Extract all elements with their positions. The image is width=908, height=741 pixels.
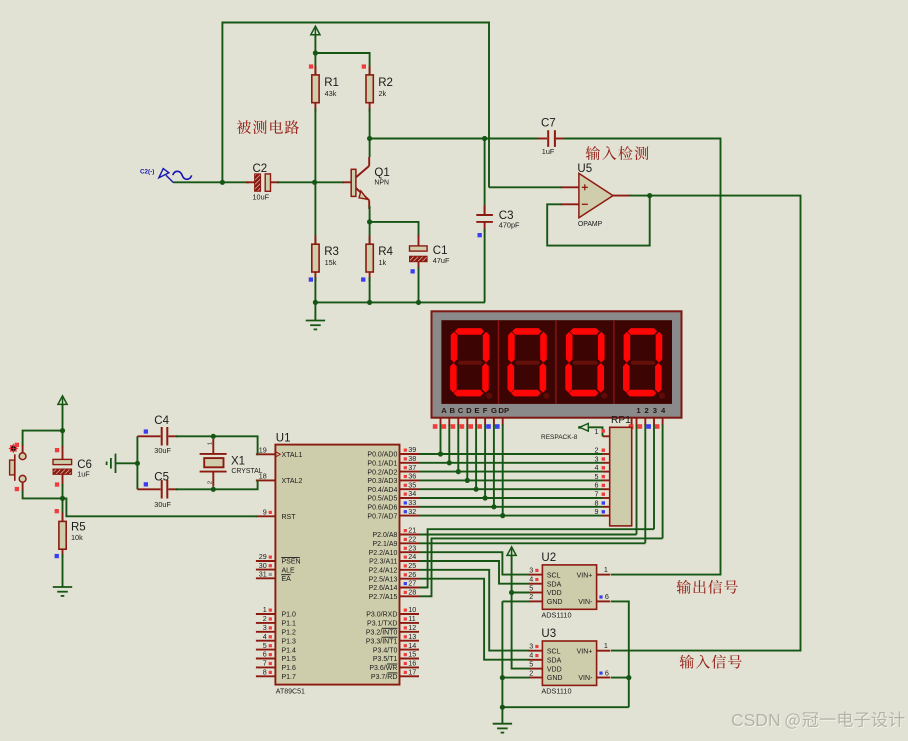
svg-text:P1.7: P1.7 <box>282 674 297 681</box>
wire C4-C5 left vertical <box>136 436 138 489</box>
wire U5 output to U3 VIN+ <box>611 196 801 651</box>
crystal X1 <box>200 439 227 487</box>
svg-text:VIN+: VIN+ <box>577 572 593 579</box>
U1 pin 16 P3.6/WR <box>400 666 420 668</box>
junction seg5/P0 <box>474 487 479 492</box>
svg-text:1: 1 <box>604 641 608 650</box>
wire P2.5 to U3 SDA <box>419 579 530 660</box>
svg-text:P0.2/AD2: P0.2/AD2 <box>367 469 397 476</box>
U1 pin 34 P0.5/AD5 <box>400 497 420 499</box>
pin marker R4 bottom <box>361 277 365 281</box>
svg-text:10uF: 10uF <box>253 192 270 201</box>
svg-text:14: 14 <box>408 641 416 650</box>
svg-text:D: D <box>466 406 472 415</box>
power symbol VCC (ADC) <box>507 547 516 558</box>
pin marker display digit 4 <box>655 424 660 429</box>
wire power to R2 <box>315 53 369 75</box>
wire rail to ground <box>314 302 316 320</box>
display digit labels 1234 <box>636 406 666 415</box>
U1 pin 1 P1.0 <box>256 613 276 615</box>
svg-text:EA: EA <box>282 576 292 583</box>
svg-text:XTAL1: XTAL1 <box>282 452 303 459</box>
wire power to R1 <box>314 35 316 75</box>
capacitor C4 <box>137 427 178 446</box>
pin marker RP1 8 <box>602 501 605 504</box>
wire to button top <box>23 431 63 446</box>
svg-text:B: B <box>450 406 456 415</box>
svg-text:35: 35 <box>408 480 416 489</box>
wire R3 to rail <box>314 277 316 302</box>
svg-text:P2.4/A12: P2.4/A12 <box>369 568 398 575</box>
U1 pin 30 ALE <box>256 569 276 571</box>
resistor R2 <box>366 66 373 112</box>
svg-text:VDD: VDD <box>547 666 562 673</box>
svg-text:30uF: 30uF <box>154 500 171 509</box>
wire GND to U3 <box>502 677 529 679</box>
svg-text:P1.4: P1.4 <box>282 647 297 654</box>
svg-text:P0.7/AD7: P0.7/AD7 <box>367 513 397 520</box>
svg-text:C7: C7 <box>541 117 556 129</box>
wire U3 VIN- stub <box>611 677 629 679</box>
svg-text:30: 30 <box>259 561 267 570</box>
svg-text:R2: R2 <box>378 77 393 89</box>
wire VDD to U2 <box>512 592 530 594</box>
pin marker button bottom <box>15 487 19 491</box>
junction C3 tap <box>482 136 487 141</box>
svg-text:P2.3/A11: P2.3/A11 <box>369 559 397 566</box>
resistor R3 <box>312 236 319 282</box>
resistor pack RP1 RESPACK-8 <box>610 427 632 526</box>
svg-text:4: 4 <box>529 575 533 584</box>
wire emitter node to C1 <box>370 222 419 238</box>
U1 pin 37 P0.2/AD2 <box>400 471 420 473</box>
U1 pin 29 PSEN <box>256 560 276 562</box>
U1 pin 11 P3.1/TXD <box>400 622 420 624</box>
pin marker C6 top <box>55 448 59 452</box>
svg-text:6: 6 <box>605 592 609 601</box>
svg-text:CSDN: CSDN <box>731 710 781 730</box>
junction rail C1 <box>416 300 421 305</box>
RP1 pin 5 stub <box>603 479 610 481</box>
U3 pin 4 SDA <box>529 659 543 661</box>
ground (crystal, rotated) <box>107 454 116 473</box>
svg-text:P1.0: P1.0 <box>282 612 297 619</box>
wire P2.6 to digit3 <box>419 529 654 587</box>
svg-text:2: 2 <box>645 406 649 415</box>
U1 pin 24 P2.3/A11 <box>400 560 420 562</box>
display digit pin 4 wire <box>662 418 664 539</box>
wire emitter down <box>369 206 371 222</box>
U1 pin 5 P1.4 <box>256 649 276 651</box>
svg-text:13: 13 <box>408 632 416 641</box>
svg-text:30uF: 30uF <box>154 446 171 455</box>
svg-text:SDA: SDA <box>547 658 562 665</box>
wire R5 to ground <box>62 554 64 587</box>
capacitor C3 <box>476 139 493 233</box>
junction base node <box>312 180 317 185</box>
svg-text:25: 25 <box>408 561 416 570</box>
svg-text:15: 15 <box>408 650 416 659</box>
wire P0.7 bus row <box>419 515 603 517</box>
svg-text:1: 1 <box>208 442 214 445</box>
U1 pin 32 P0.7/AD7 <box>400 515 420 517</box>
svg-text:P0.0/AD0: P0.0/AD0 <box>367 452 397 459</box>
svg-text:43k: 43k <box>325 89 337 98</box>
svg-text:VIN+: VIN+ <box>577 648 593 655</box>
svg-text:RST: RST <box>282 514 297 521</box>
pin marker display seg 1 <box>433 424 438 429</box>
svg-text:P2.7/A15: P2.7/A15 <box>369 594 398 601</box>
svg-text:P1.1: P1.1 <box>282 621 297 628</box>
U1 pin 21 P2.0/A8 <box>400 534 420 536</box>
display digit pin 2 wire <box>644 418 646 544</box>
RP1 pin 1 wire with terminal arrow <box>578 423 610 436</box>
svg-text:16: 16 <box>408 659 416 668</box>
RP1 pin 2 stub <box>603 453 610 455</box>
pin marker display seg 5 <box>468 424 473 429</box>
svg-text:38: 38 <box>408 454 416 463</box>
display segment pin D wire <box>466 418 468 481</box>
junction source/left-rail <box>220 180 225 185</box>
resistor R5 <box>59 512 66 557</box>
wire VDD net <box>512 556 530 669</box>
svg-text:26: 26 <box>408 570 416 579</box>
junction X1 top <box>211 434 216 439</box>
U2 pin 4 SDA <box>529 583 543 585</box>
svg-text:P1.2: P1.2 <box>282 630 297 637</box>
pin marker R2 top <box>362 64 366 68</box>
wire U2 GND stub <box>502 600 529 602</box>
pin marker display seg 7 <box>486 424 491 429</box>
svg-text:ADS1110: ADS1110 <box>541 610 571 619</box>
U1 pin 35 P0.4/AD4 <box>400 488 420 490</box>
svg-text:5: 5 <box>263 641 267 650</box>
svg-text:2: 2 <box>529 668 533 677</box>
microcontroller U1 AT89C51 <box>275 445 399 685</box>
7-seg digit 2 showing 0 <box>508 328 550 399</box>
wire P2.1 to digit2 <box>419 542 645 544</box>
svg-text:1uF: 1uF <box>77 470 90 479</box>
pin marker R5 bottom <box>55 554 59 558</box>
junction seg8/P0 <box>500 513 505 518</box>
svg-text:P2.0/A8: P2.0/A8 <box>372 532 397 539</box>
U1 pin 23 P2.2/A10 <box>400 551 420 553</box>
pin marker display digit 3 <box>646 424 651 429</box>
svg-text:VIN-: VIN- <box>578 675 593 682</box>
display segment pin E wire <box>475 418 477 490</box>
wire P0.0 bus row <box>419 453 603 455</box>
svg-text:21: 21 <box>408 526 416 535</box>
svg-text:19: 19 <box>259 446 267 455</box>
svg-text:34: 34 <box>408 489 416 498</box>
U2 pin 5 VDD <box>529 592 543 594</box>
pin marker C5 left <box>144 482 148 486</box>
svg-text:VIN-: VIN- <box>578 599 593 606</box>
pin marker RP1 7 <box>602 493 605 496</box>
U3 pin 1 VIN+ <box>597 650 611 652</box>
svg-text:P2.1/A9: P2.1/A9 <box>372 541 397 548</box>
pin marker display seg 4 <box>460 424 465 429</box>
svg-text:P2.2/A10: P2.2/A10 <box>369 550 398 557</box>
svg-text:12: 12 <box>408 623 416 632</box>
svg-text:P2.6/A14: P2.6/A14 <box>369 585 398 592</box>
wire power to C6 node <box>62 405 64 448</box>
label 输出信号 <box>677 580 738 594</box>
svg-text:3: 3 <box>529 565 533 574</box>
wire button bottom <box>23 490 63 498</box>
label 输入信号 <box>680 655 742 669</box>
display digit pin 1 wire <box>636 418 638 535</box>
wire P0.1 bus row <box>419 462 603 464</box>
wire ground to cap mid <box>116 462 138 464</box>
wire to U5 plus input <box>489 186 562 188</box>
svg-text:10k: 10k <box>71 533 83 542</box>
svg-text:P2.5/A13: P2.5/A13 <box>369 576 398 583</box>
svg-text:P0.6/AD6: P0.6/AD6 <box>367 505 397 512</box>
svg-text:U3: U3 <box>541 628 556 640</box>
svg-text:4: 4 <box>529 651 533 660</box>
display segment pin B wire <box>448 418 450 463</box>
svg-text:33: 33 <box>408 498 416 507</box>
svg-text:U2: U2 <box>541 552 556 564</box>
junction GND rail <box>500 705 505 710</box>
junction VDD U2 <box>509 590 514 595</box>
junction C6/R5/RST <box>60 496 65 501</box>
button top pin stub <box>22 445 24 453</box>
7-seg digit 3 showing 0 <box>565 328 607 399</box>
display segment pin F wire <box>484 418 486 498</box>
power symbol VCC (divider) <box>311 26 320 37</box>
junction seg3/P0 <box>456 469 461 474</box>
svg-text:P1.6: P1.6 <box>282 665 297 672</box>
junction emitter node <box>367 219 372 224</box>
label 被测电路 <box>237 120 299 134</box>
pin marker RP1 9 <box>602 510 605 513</box>
push button (reset) <box>10 453 26 482</box>
wire U2 VIN- to rail <box>611 601 629 707</box>
U1 pin 25 P2.4/A12 <box>400 569 420 571</box>
svg-text:C2: C2 <box>253 163 268 175</box>
U2 pin 6 VIN- <box>597 600 611 602</box>
RP1 pin 8 stub <box>603 506 610 508</box>
resistor R4 <box>366 236 373 282</box>
RP1 pin 4 stub <box>603 471 610 473</box>
ADC U2 ADS1110 <box>542 565 596 609</box>
wire P2.2 to U2 SCL <box>419 552 530 574</box>
wire C5 to XTAL2 <box>176 480 258 489</box>
U1 pin 10 P3.0/RXD <box>400 613 420 615</box>
U1 pin 14 P3.4/T0 <box>400 649 420 651</box>
wire C4 to XTAL1 <box>176 436 258 454</box>
U1 pin 6 P1.5 <box>256 658 276 660</box>
svg-text:2: 2 <box>529 592 533 601</box>
svg-text:31: 31 <box>259 570 267 579</box>
wire C2 to Q1 base <box>277 181 344 183</box>
junction seg4/P0 <box>465 478 470 483</box>
svg-text:P3.7/RD: P3.7/RD <box>371 674 397 681</box>
RP1 pin 7 stub <box>603 497 610 499</box>
svg-text:39: 39 <box>408 445 416 454</box>
svg-text:15k: 15k <box>325 258 337 267</box>
wire GND net vertical <box>502 601 628 707</box>
svg-text:7: 7 <box>263 659 267 668</box>
svg-text:GND: GND <box>547 675 563 682</box>
svg-text:1: 1 <box>604 565 608 574</box>
wire to ground (ADC) <box>501 707 503 724</box>
svg-text:OPAMP: OPAMP <box>578 221 603 228</box>
capacitor C6 <box>53 446 72 487</box>
svg-text:10: 10 <box>408 605 416 614</box>
svg-text:32: 32 <box>408 507 416 516</box>
wire P2.7 to digit4 <box>419 538 663 596</box>
wire emitter node to R4 <box>369 222 371 244</box>
svg-text:F: F <box>483 406 488 415</box>
display digit pin 3 wire <box>653 418 655 530</box>
7-seg digit 4 showing 0 <box>623 328 665 399</box>
svg-text:E: E <box>474 406 479 415</box>
svg-text:DP: DP <box>498 406 509 415</box>
svg-text:P0.1/AD1: P0.1/AD1 <box>367 461 397 468</box>
pin marker R1 top <box>309 64 313 68</box>
U3 pin 5 VDD <box>529 668 543 670</box>
pin marker RP1 1 <box>602 429 605 432</box>
power symbol VCC (reset) <box>58 396 67 407</box>
wire R1 bottom to R3 top <box>314 108 316 244</box>
wire source to C2 <box>174 181 249 183</box>
capacitor C5 <box>137 480 178 499</box>
button actuate marker <box>8 443 18 453</box>
svg-text:24: 24 <box>408 552 416 561</box>
svg-text:P3.3/INT1: P3.3/INT1 <box>366 638 398 645</box>
junction rail R3 <box>313 300 318 305</box>
svg-text:P3.1/TXD: P3.1/TXD <box>367 621 397 628</box>
svg-text:NPN: NPN <box>374 179 389 186</box>
svg-text:P0.5/AD5: P0.5/AD5 <box>367 496 397 503</box>
U3 pin 2 GND <box>529 677 543 679</box>
svg-text:C4: C4 <box>154 415 169 427</box>
svg-text:P0.3/AD3: P0.3/AD3 <box>367 478 397 485</box>
U1 pin 12 P3.2/INT0 <box>400 631 420 633</box>
pin marker RP1 5 <box>602 475 605 478</box>
U1 pin 22 P2.1/A9 <box>400 542 420 544</box>
svg-text:A: A <box>441 406 447 415</box>
wire P0.3 bus row <box>419 479 603 481</box>
pin marker C6 bottom <box>55 482 59 486</box>
U1 pin 3 P1.2 <box>256 631 276 633</box>
junction seg2/P0 <box>447 460 452 465</box>
display common pin to RP1 <box>631 418 633 428</box>
svg-text:CRYSTAL: CRYSTAL <box>231 468 262 475</box>
pin marker RP1 2 <box>602 449 605 452</box>
wire R2 to collector <box>369 108 371 157</box>
svg-text:470pF: 470pF <box>499 221 520 230</box>
junction GND U3 <box>500 675 505 680</box>
U1 pin 39 P0.0/AD0 <box>400 453 420 455</box>
U2 pin 3 SCL <box>529 574 543 576</box>
svg-text:27: 27 <box>408 579 416 588</box>
U1 pin 36 P0.3/AD3 <box>400 479 420 481</box>
pin marker display seg 8 <box>495 424 500 429</box>
U1 pin 27 P2.6/A14 <box>400 587 420 589</box>
svg-text:4: 4 <box>661 406 666 415</box>
svg-text:P3.5/T1: P3.5/T1 <box>373 656 398 663</box>
capacitor C2 <box>246 174 279 191</box>
svg-text:ALE: ALE <box>282 567 296 574</box>
ground (ADC) <box>493 724 512 733</box>
svg-text:C: C <box>458 406 464 415</box>
U1 pin 9 RST <box>256 515 276 517</box>
svg-text:8: 8 <box>263 668 267 677</box>
RP1 pin 3 stub <box>603 462 610 464</box>
pin marker display seg 3 <box>451 424 456 429</box>
svg-text:SCL: SCL <box>547 572 561 579</box>
junction button/C6 top <box>60 428 65 433</box>
junction seg6/P0 <box>483 495 488 500</box>
U1 pin 18 XTAL2 <box>256 479 276 481</box>
wire node to RST <box>63 498 258 516</box>
U1 pin 17 P3.7/RD <box>400 675 420 677</box>
wire C3 to rail <box>484 229 486 302</box>
pin marker RP1 3 <box>602 457 605 460</box>
pin marker display digit 1 <box>629 424 634 429</box>
junction rail R4 <box>367 300 372 305</box>
svg-text:47uF: 47uF <box>433 256 450 265</box>
junction collector node <box>367 136 372 141</box>
svg-text:6: 6 <box>263 650 267 659</box>
svg-text:P3.0/RXD: P3.0/RXD <box>366 612 397 619</box>
svg-text:3: 3 <box>653 406 657 415</box>
U1 pin 8 P1.7 <box>256 675 276 677</box>
resistor R1 <box>312 66 319 112</box>
svg-text:11: 11 <box>408 614 415 623</box>
junction seg1/P0 <box>438 451 443 456</box>
svg-text:P3.2/INT0: P3.2/INT0 <box>366 630 398 637</box>
junction C4/C5 mid <box>135 461 140 466</box>
junction power/R1/R2 <box>313 50 318 55</box>
svg-text:R4: R4 <box>378 246 393 258</box>
pin marker R5 top <box>55 509 59 513</box>
svg-text:R1: R1 <box>324 77 339 89</box>
wire P0.2 bus row <box>419 471 603 473</box>
U2 pin 1 VIN+ <box>597 574 611 576</box>
svg-text:2k: 2k <box>379 89 387 98</box>
svg-text:AT89C51: AT89C51 <box>276 689 305 696</box>
label 输入检测 <box>586 146 649 160</box>
wire bottom rail (divider) <box>315 301 485 303</box>
capacitor C1 <box>410 235 428 270</box>
svg-text:U1: U1 <box>276 432 291 444</box>
watermark CSDN <box>731 710 905 731</box>
ground (divider) <box>306 321 325 330</box>
svg-text:SCL: SCL <box>547 648 561 655</box>
svg-text:2: 2 <box>208 481 214 484</box>
svg-text:P1.3: P1.3 <box>282 638 297 645</box>
svg-text:22: 22 <box>408 535 416 544</box>
svg-text:1uF: 1uF <box>542 147 555 156</box>
svg-text:R3: R3 <box>324 246 339 258</box>
pin marker display seg 2 <box>442 424 447 429</box>
wire C1 to rail <box>418 267 420 302</box>
U1 pin 13 P3.3/INT1 <box>400 640 420 642</box>
U1 pin 28 P2.7/A15 <box>400 595 420 597</box>
junction U5 output <box>647 193 652 198</box>
svg-text:R5: R5 <box>71 522 86 534</box>
display segment pin A wire <box>440 418 442 454</box>
svg-text:RP1: RP1 <box>611 415 631 426</box>
svg-text:6: 6 <box>605 668 609 677</box>
RP1 pin 9 stub <box>603 515 610 517</box>
svg-text:3: 3 <box>263 623 267 632</box>
